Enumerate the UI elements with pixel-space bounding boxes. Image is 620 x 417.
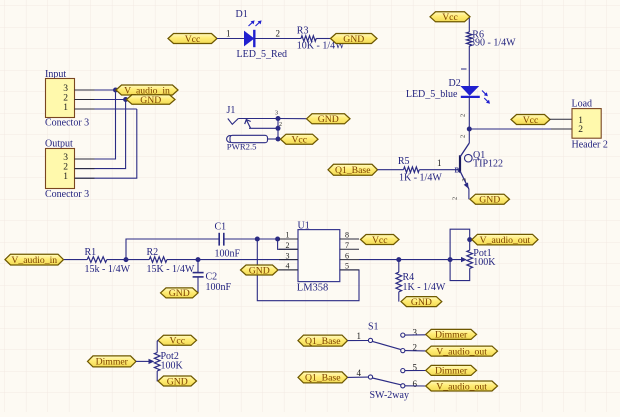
svg-text:1K - 1/4W: 1K - 1/4W xyxy=(403,282,446,293)
svg-text:1: 1 xyxy=(286,231,290,240)
svg-text:Vcc: Vcc xyxy=(185,34,201,45)
svg-text:1: 1 xyxy=(63,172,68,182)
wire C2 to GND xyxy=(197,277,199,293)
svg-text:Dimmer: Dimmer xyxy=(435,366,468,377)
wire Pot2 to GND xyxy=(157,371,158,381)
node junction C2 tap xyxy=(196,257,201,262)
svg-text:GND: GND xyxy=(249,265,270,276)
svg-text:1: 1 xyxy=(63,103,68,113)
svg-text:S1: S1 xyxy=(368,321,379,332)
port V_audio_in (main) xyxy=(5,254,64,266)
svg-text:R3: R3 xyxy=(297,25,309,36)
wire emitter to GND xyxy=(468,189,470,199)
wire C1 to pin1 xyxy=(224,238,298,240)
wire R1 to R2 xyxy=(107,259,149,261)
node junction C1 tap xyxy=(124,257,129,262)
svg-text:3: 3 xyxy=(413,328,418,338)
svg-text:Q1_Base: Q1_Base xyxy=(305,373,341,384)
wire pin2 drop xyxy=(278,239,298,249)
svg-text:3: 3 xyxy=(275,111,278,117)
port Dimmer (S1-3) xyxy=(426,329,477,340)
wire R6 to D2 xyxy=(468,46,470,86)
svg-text:3: 3 xyxy=(286,251,290,260)
svg-text:Vcc: Vcc xyxy=(291,135,307,146)
power port Vcc (D1 anode) xyxy=(168,34,217,45)
svg-text:3: 3 xyxy=(63,84,68,94)
wire Q1_Base to R5 xyxy=(378,169,404,171)
port Vcc (U1 pin8) xyxy=(361,235,400,246)
resistor R6 xyxy=(467,32,473,46)
svg-text:1: 1 xyxy=(226,29,231,39)
port GND (C2) xyxy=(161,288,199,299)
svg-text:6: 6 xyxy=(345,251,349,260)
J1 tip contact xyxy=(228,119,239,125)
port GND (R4) xyxy=(401,297,442,308)
svg-text:2: 2 xyxy=(63,163,68,173)
svg-text:390 - 1/4W: 390 - 1/4W xyxy=(470,38,516,49)
svg-text:R5: R5 xyxy=(398,156,410,167)
port V_audio_out (S1-2) xyxy=(426,346,498,357)
wire C2 tap xyxy=(197,260,199,273)
svg-text:Output: Output xyxy=(45,139,73,150)
svg-text:2: 2 xyxy=(279,122,282,128)
port Q1_Base (S1 bottom) xyxy=(298,372,348,384)
svg-text:GND: GND xyxy=(318,114,339,125)
svg-text:1: 1 xyxy=(437,158,442,168)
node junction Pot1 top xyxy=(467,237,472,242)
svg-text:3: 3 xyxy=(461,178,468,181)
wire collector node to Q1 xyxy=(468,129,470,143)
pin stub U1 left 1 xyxy=(279,238,298,240)
resistor R5 xyxy=(404,167,420,173)
svg-text:100K: 100K xyxy=(161,361,184,372)
svg-text:2: 2 xyxy=(452,197,459,200)
svg-text:LED_5_blue: LED_5_blue xyxy=(406,89,458,100)
svg-text:3: 3 xyxy=(63,153,68,163)
svg-text:D2: D2 xyxy=(449,78,461,89)
wire R4 drop xyxy=(398,260,400,273)
port Q1_Base (R5) xyxy=(328,164,378,176)
pin mark 1 (D2) xyxy=(461,68,467,70)
resistor R3 xyxy=(301,36,316,42)
svg-text:7: 7 xyxy=(345,241,349,250)
node junction GND input xyxy=(123,97,128,102)
svg-text:Q1_Base: Q1_Base xyxy=(305,336,341,347)
svg-text:6: 6 xyxy=(413,379,418,389)
svg-text:LM358: LM358 xyxy=(297,283,329,294)
svg-text:1K - 1/4W: 1K - 1/4W xyxy=(399,173,442,184)
wire J1 switch xyxy=(249,127,278,129)
wire Vcc to Pot2 xyxy=(157,340,158,352)
svg-text:2: 2 xyxy=(286,241,290,250)
svg-text:Header 2: Header 2 xyxy=(572,140,608,151)
node junction J1 top xyxy=(276,116,281,121)
svg-text:B: B xyxy=(455,167,460,175)
wire Q1_Base to S1 common bottom xyxy=(348,376,369,378)
node junction pins 1-2 xyxy=(275,237,280,242)
wire bus input-output 2 xyxy=(75,100,126,169)
svg-text:15k - 1/4W: 15k - 1/4W xyxy=(85,264,131,275)
port GND (Q1 emitter) xyxy=(470,194,510,205)
wire S1-5 to Dimmer xyxy=(405,370,426,372)
port Vcc (Load) xyxy=(511,115,550,126)
pin stub U1 right 6 xyxy=(340,259,359,261)
svg-text:Q1_Base: Q1_Base xyxy=(335,165,371,176)
J1 barrel sleeve xyxy=(227,135,268,142)
wire S1-6 to V_audio_out xyxy=(405,385,426,387)
port GND (input) xyxy=(127,95,176,106)
J1 switch arrow xyxy=(245,120,251,129)
connector Output box xyxy=(46,149,75,189)
svg-text:V_audio_out: V_audio_out xyxy=(436,346,487,357)
port V_audio_in (input) xyxy=(116,85,178,96)
port Vcc (Pot2) xyxy=(158,335,197,346)
svg-text:Vcc: Vcc xyxy=(442,12,458,23)
svg-text:V_audio_out: V_audio_out xyxy=(436,381,487,392)
svg-text:Dimmer: Dimmer xyxy=(435,330,468,341)
wire R3 to GND xyxy=(316,38,330,40)
svg-text:2: 2 xyxy=(578,125,583,135)
svg-text:GND: GND xyxy=(140,95,161,106)
pin stub U1 right 5 xyxy=(340,269,359,271)
wire J1 to GND port xyxy=(278,118,307,120)
wire S1-2 to V_audio_out xyxy=(405,350,426,352)
svg-text:2: 2 xyxy=(63,94,68,104)
pin stubs Input xyxy=(75,89,95,91)
potentiometer Pot1 xyxy=(461,250,473,268)
svg-text:Vcc: Vcc xyxy=(523,115,539,126)
node junction feedback top xyxy=(255,237,260,242)
wire J1 sleeve xyxy=(268,138,279,140)
wire Input pin1 xyxy=(75,108,137,110)
wire feedback loop xyxy=(257,239,359,301)
node junction J1 bottom xyxy=(276,137,281,142)
wire S1-3 to Dimmer xyxy=(405,334,426,336)
svg-text:C1: C1 xyxy=(215,222,227,233)
node junction Pot1 left xyxy=(448,257,453,262)
port Vcc (J1) xyxy=(281,134,319,145)
wire R5 to Q1 base xyxy=(419,169,459,171)
port Dimmer (S1-5) xyxy=(426,365,477,376)
wire Pot1 loop xyxy=(450,229,470,280)
LED D2 xyxy=(460,86,490,104)
power port Vcc (R6 top) xyxy=(430,12,470,23)
svg-text:Vcc: Vcc xyxy=(372,235,388,246)
resistor R1 xyxy=(87,257,107,263)
svg-text:C2: C2 xyxy=(206,272,218,283)
connector Input box xyxy=(46,79,75,118)
wire Input pin2 to GND xyxy=(75,99,127,101)
svg-text:J1: J1 xyxy=(227,105,236,116)
wire Input pin3 to V_audio_in xyxy=(75,89,117,91)
svg-text:Dimmer: Dimmer xyxy=(96,357,129,368)
pin stub Load 2 xyxy=(551,128,572,130)
resistor R2 xyxy=(149,257,167,263)
svg-text:100nF: 100nF xyxy=(206,282,232,293)
svg-text:GND: GND xyxy=(169,288,190,299)
port GND (Pot2) xyxy=(158,376,197,387)
svg-text:SW-2way: SW-2way xyxy=(370,390,409,401)
node junction V_audio_in xyxy=(113,88,118,93)
port GND (U1 pin4) xyxy=(241,265,279,276)
pin stub U1 right 8 xyxy=(340,238,359,240)
node junction J1 mid xyxy=(276,126,281,131)
port Q1_Base (S1 top) xyxy=(298,335,348,347)
svg-text:Conector 3: Conector 3 xyxy=(45,118,89,129)
connector Load box xyxy=(572,109,601,139)
pin stub U1 left 3 xyxy=(279,259,298,261)
port GND (J1) xyxy=(307,114,351,125)
svg-text:8: 8 xyxy=(345,231,349,240)
capacitor C1 xyxy=(219,233,224,246)
pin stub U1 pin4 xyxy=(278,269,298,271)
wire Dimmer to Pot2 wiper xyxy=(136,360,150,362)
svg-text:V_audio_in: V_audio_in xyxy=(11,255,57,266)
svg-text:Conector 3: Conector 3 xyxy=(45,189,89,200)
wire R2 to pin3 xyxy=(167,259,298,261)
wire J1 tip xyxy=(238,118,278,120)
svg-text:100K: 100K xyxy=(473,257,496,268)
wire Vcc to D1 xyxy=(217,38,244,40)
svg-text:Load: Load xyxy=(572,99,593,110)
svg-text:2: 2 xyxy=(460,135,467,138)
wire bus input-output 3 xyxy=(75,109,137,178)
svg-text:PWR2.5: PWR2.5 xyxy=(227,141,257,151)
svg-text:GND: GND xyxy=(411,297,432,308)
node junction R4 xyxy=(396,257,401,262)
svg-text:R1: R1 xyxy=(85,247,97,258)
op-amp U1 box xyxy=(298,230,340,282)
svg-text:GND: GND xyxy=(167,376,188,387)
svg-text:U1: U1 xyxy=(298,220,310,231)
svg-text:5: 5 xyxy=(345,262,349,271)
svg-text:R2: R2 xyxy=(147,247,159,258)
svg-text:15K - 1/4W: 15K - 1/4W xyxy=(147,264,195,275)
pin stubs Output xyxy=(75,158,95,160)
wire Vcc to R6 xyxy=(468,18,470,32)
svg-text:2: 2 xyxy=(460,114,467,117)
svg-text:1: 1 xyxy=(357,331,362,341)
svg-text:V_audio_out: V_audio_out xyxy=(480,235,531,246)
svg-text:GND: GND xyxy=(479,195,500,206)
svg-text:Vcc: Vcc xyxy=(169,336,185,347)
pin stub Load 1 xyxy=(550,118,573,120)
svg-text:2: 2 xyxy=(276,29,281,39)
wire J1 vertical xyxy=(277,119,279,140)
transistor Q1 xyxy=(460,143,472,189)
wire D1 to R3 xyxy=(254,38,301,40)
switch S1 pole B xyxy=(368,369,405,388)
wire collector to Load xyxy=(469,128,572,130)
pin stub U1 left 4 xyxy=(279,269,298,271)
wire R4 to GND xyxy=(398,292,400,302)
wire pin6 to Pot1 xyxy=(359,259,462,261)
svg-text:TIP122: TIP122 xyxy=(473,158,503,169)
wire D2 to collector node xyxy=(468,97,470,129)
potentiometer Pot2 xyxy=(149,353,161,372)
pin stub U1 right 7 xyxy=(340,248,359,250)
svg-text:100nF: 100nF xyxy=(215,249,241,260)
port V_audio_out (S1-6) xyxy=(426,381,498,392)
port Dimmer (Pot2) xyxy=(88,356,137,368)
power port GND (R3) xyxy=(331,34,378,45)
capacitor C2 xyxy=(193,273,204,277)
svg-text:4: 4 xyxy=(286,262,290,271)
svg-text:GND: GND xyxy=(343,34,364,45)
svg-text:D1: D1 xyxy=(236,9,248,20)
LED D1 xyxy=(244,20,262,47)
wire Q1_Base to S1 common top xyxy=(348,340,369,342)
wire V_audio_in to R1 xyxy=(64,259,87,261)
switch S1 pole A xyxy=(368,333,405,353)
svg-text:LED_5_Red: LED_5_Red xyxy=(237,49,288,60)
wire tap up xyxy=(126,239,219,260)
port V_audio_out (Pot1) xyxy=(472,234,538,246)
wire bus input-output 1 xyxy=(75,90,116,159)
svg-text:4: 4 xyxy=(357,368,362,378)
resistor R4 xyxy=(396,272,402,292)
pin stub U1 left 2 xyxy=(279,248,298,250)
node junction collector xyxy=(467,127,472,132)
